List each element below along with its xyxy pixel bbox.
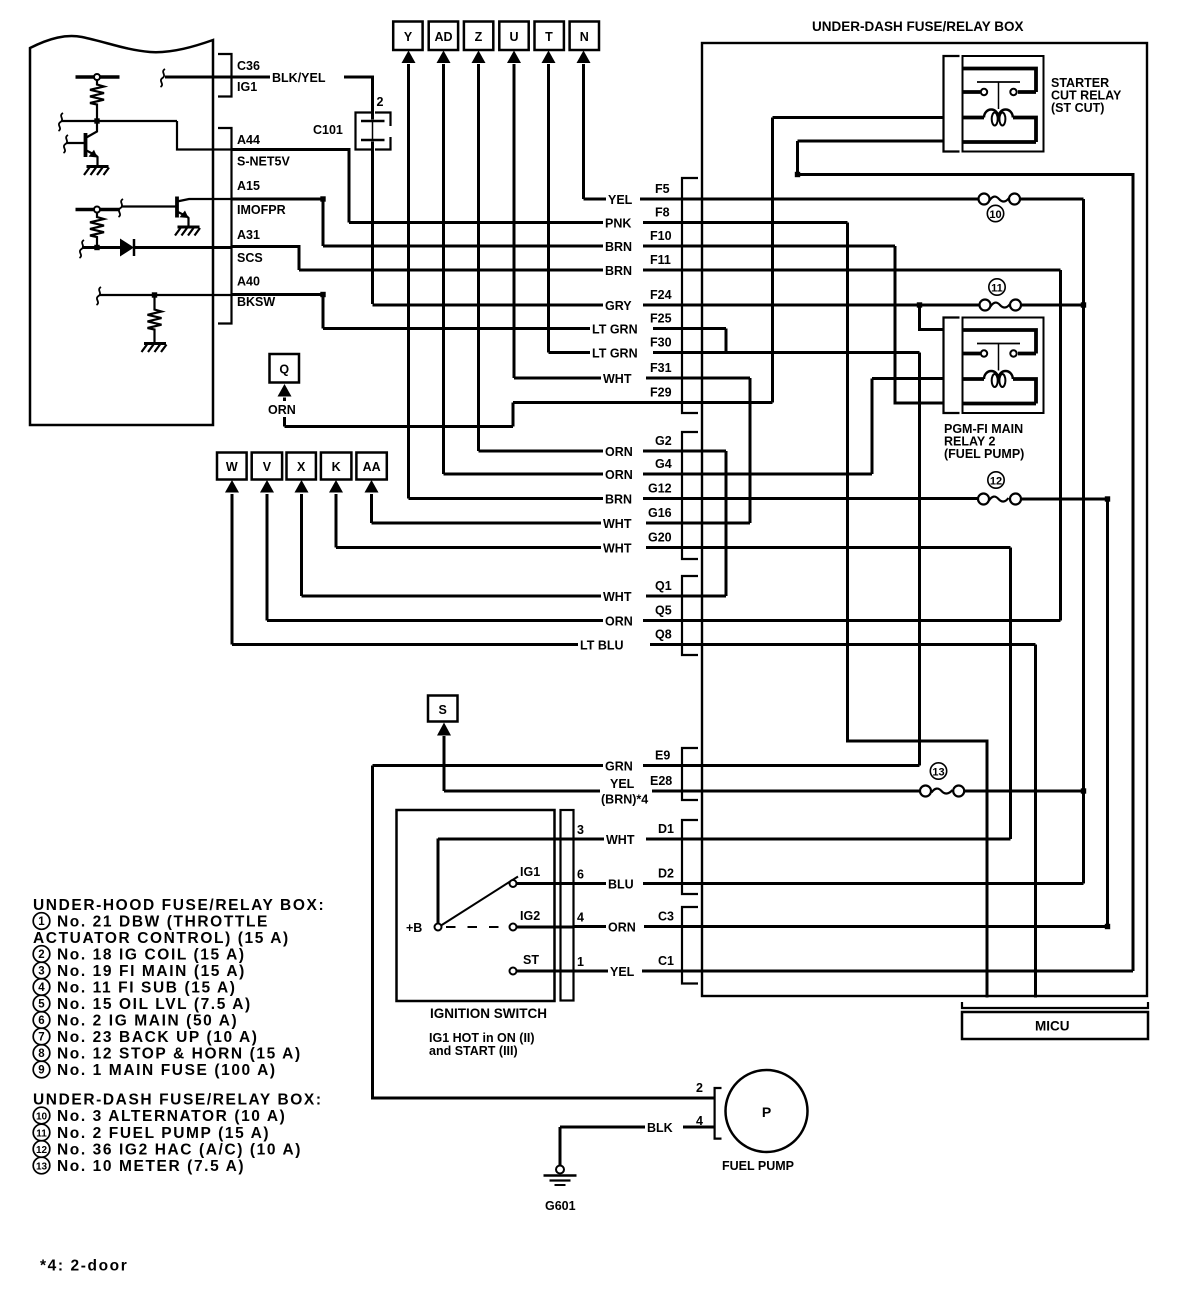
wire BLK row xyxy=(560,1126,716,1129)
svg-text:F30: F30 xyxy=(650,336,672,350)
svg-text:5: 5 xyxy=(38,999,45,1011)
relay ST CUT connector bracket xyxy=(944,56,960,152)
node dot F24/fuse11 branch xyxy=(917,302,922,307)
svg-text:C101: C101 xyxy=(313,123,343,137)
wire break squiggle xyxy=(59,113,64,131)
connector bracket D xyxy=(682,820,698,894)
svg-text:Q1: Q1 xyxy=(655,579,672,593)
connector bracket C xyxy=(682,907,698,984)
resistor R3 (BKSW pulldown) xyxy=(148,295,162,344)
svg-text:13: 13 xyxy=(36,1162,48,1173)
connector arrow AA xyxy=(356,453,386,493)
node junction dot SCS xyxy=(94,245,99,250)
svg-text:Q: Q xyxy=(279,363,289,377)
svg-text:C1: C1 xyxy=(658,954,674,968)
svg-text:T: T xyxy=(545,30,553,44)
wire ST-CUT bottom to C1 (via right side) xyxy=(798,141,1134,971)
svg-text:10: 10 xyxy=(36,1112,48,1123)
svg-text:3: 3 xyxy=(577,823,584,837)
svg-text:No. 2 FUEL PUMP (15 A): No. 2 FUEL PUMP (15 A) xyxy=(57,1125,270,1142)
wire C36/IG1 internal xyxy=(165,76,232,79)
svg-text:BLK/YEL: BLK/YEL xyxy=(272,71,326,85)
svg-text:BKSW: BKSW xyxy=(237,295,275,309)
legend circled numbers xyxy=(33,913,50,1174)
fuse 11 xyxy=(991,303,1011,308)
wire U column xyxy=(513,64,516,378)
ground (Q1 emitter) xyxy=(87,165,109,168)
wire fuse11 branch into relay 2 xyxy=(920,305,944,330)
svg-text:AD: AD xyxy=(434,30,452,44)
svg-text:C36: C36 xyxy=(237,59,260,73)
svg-text:BRN: BRN xyxy=(605,240,632,254)
wire G20 row WHT xyxy=(336,546,1011,549)
wire Q stem xyxy=(283,398,286,427)
connector bracket E xyxy=(682,748,698,800)
power rail 2 inside ECM xyxy=(76,208,120,211)
ignition internal +B wire xyxy=(438,839,574,925)
transistor Q1 (ECM) xyxy=(84,133,88,157)
svg-text:A40: A40 xyxy=(237,275,260,289)
svg-text:WHT: WHT xyxy=(603,372,632,386)
wire Q-ORN link row xyxy=(285,403,514,427)
connector arrow Q xyxy=(270,354,300,397)
rail 2 tap circle xyxy=(94,207,100,213)
wire fuse13 out elbow xyxy=(964,790,1083,793)
wire Q8 row LT BLU xyxy=(232,643,1036,646)
wire F25 row LT GRN (from A40) xyxy=(323,327,726,330)
node dot A15 corner xyxy=(320,196,325,201)
svg-text:7: 7 xyxy=(38,1032,44,1044)
wire F31 row WHT xyxy=(514,377,750,380)
svg-text:E9: E9 xyxy=(655,749,670,763)
svg-text:3: 3 xyxy=(38,966,44,978)
svg-text:LT GRN: LT GRN xyxy=(592,347,638,361)
svg-text:No. 15 OIL LVL (7.5 A): No. 15 OIL LVL (7.5 A) xyxy=(57,996,252,1013)
wire D2 row BLU xyxy=(573,882,1084,885)
wire Z column xyxy=(477,64,480,451)
svg-text:12: 12 xyxy=(36,1145,48,1156)
relay 2 outer box xyxy=(963,318,1044,414)
wire Q8 down to MICU xyxy=(1034,645,1037,998)
label ORN under Q xyxy=(265,401,303,417)
wire A44 row xyxy=(232,150,349,223)
wire S stem xyxy=(443,736,446,791)
svg-text:UNDER-DASH FUSE/RELAY BOX: UNDER-DASH FUSE/RELAY BOX xyxy=(812,19,1024,34)
svg-text:6: 6 xyxy=(38,1015,44,1027)
svg-text:WHT: WHT xyxy=(603,542,632,556)
svg-text:(BRN)*4: (BRN)*4 xyxy=(601,793,648,807)
wire internal junction row xyxy=(61,120,177,122)
svg-text:IG2: IG2 xyxy=(520,909,540,923)
ground (R3) xyxy=(144,342,166,345)
node junction dot BKSW xyxy=(152,292,157,297)
svg-text:UNDER-DASH FUSE/RELAY BOX:: UNDER-DASH FUSE/RELAY BOX: xyxy=(33,1092,323,1109)
svg-text:No. 23 BACK UP (10 A): No. 23 BACK UP (10 A) xyxy=(57,1029,259,1046)
connector bracket C36 on ECM xyxy=(218,54,232,97)
wire Y column xyxy=(407,64,410,499)
svg-text:11: 11 xyxy=(36,1129,47,1140)
svg-text:13: 13 xyxy=(932,767,944,779)
svg-text:Z: Z xyxy=(475,30,483,44)
wire F8 row PNK (from A44) xyxy=(349,221,848,224)
svg-text:G601: G601 xyxy=(545,1199,576,1213)
svg-text:F25: F25 xyxy=(650,312,672,326)
wire F24 row GRY (from C101) to fuse 11 xyxy=(373,304,980,307)
svg-text:1: 1 xyxy=(38,916,45,928)
node dot fuse12 corner xyxy=(1105,496,1110,501)
fuel pump motor circle xyxy=(726,1070,808,1152)
wire Q1 row WHT xyxy=(302,595,727,598)
wire ST-CUT coil entry xyxy=(773,116,944,119)
svg-text:ORN: ORN xyxy=(605,615,633,629)
svg-text:9: 9 xyxy=(38,1065,44,1077)
wire to A44 pin xyxy=(177,121,232,150)
svg-text:F24: F24 xyxy=(650,288,672,302)
wire K column xyxy=(335,494,338,548)
wire X column xyxy=(300,494,303,596)
svg-text:*4: 2-door: *4: 2-door xyxy=(40,1258,128,1275)
wire F5 row YEL xyxy=(584,198,979,201)
svg-text:A31: A31 xyxy=(237,228,260,242)
wire F29 row xyxy=(513,401,773,404)
svg-text:BLU: BLU xyxy=(608,878,634,892)
wire G2 row ORN xyxy=(479,450,727,453)
wire E28 row YEL to fuse 13 xyxy=(444,790,920,793)
node dot fuse11 out xyxy=(1081,302,1086,307)
connector C101 xyxy=(356,113,372,150)
connector arrow Y xyxy=(393,22,422,64)
svg-text:IG1 HOT in ON (II): IG1 HOT in ON (II) xyxy=(429,1031,535,1045)
svg-text:G12: G12 xyxy=(648,482,672,496)
svg-text:F5: F5 xyxy=(655,182,670,196)
connector arrow S xyxy=(428,696,458,736)
svg-text:Q5: Q5 xyxy=(655,604,672,618)
svg-text:No. 1 MAIN FUSE (100 A): No. 1 MAIN FUSE (100 A) xyxy=(57,1062,277,1079)
wire F8 down/right to MICU xyxy=(848,223,988,998)
resistor R2 xyxy=(90,213,104,248)
ignition rotor solid line +B to IG1 xyxy=(441,877,518,926)
svg-text:ST: ST xyxy=(523,953,539,967)
connector arrow W xyxy=(217,453,247,493)
wire G16 row WHT xyxy=(372,522,751,525)
svg-text:S-NET5V: S-NET5V xyxy=(237,155,290,169)
svg-text:SCS: SCS xyxy=(237,251,263,265)
connector arrow N xyxy=(570,22,599,64)
svg-text:G2: G2 xyxy=(655,434,672,448)
node junction dot R1/base rail xyxy=(94,118,99,123)
svg-text:U: U xyxy=(509,30,518,44)
ignition contact circles xyxy=(435,924,442,931)
svg-text:F11: F11 xyxy=(650,253,671,267)
resistor R1 (pull-up) xyxy=(90,80,104,121)
connector bracket A (A44-A40) on ECM xyxy=(218,128,232,324)
wire C3 row ORN xyxy=(573,925,1108,928)
svg-text:LT BLU: LT BLU xyxy=(580,639,624,653)
svg-text:No. 12 STOP & HORN (15 A): No. 12 STOP & HORN (15 A) xyxy=(57,1046,302,1063)
svg-text:BLK: BLK xyxy=(647,1121,673,1135)
svg-text:IMOFPR: IMOFPR xyxy=(237,203,286,217)
wire G12 row BRN to fuse 12 xyxy=(409,497,979,500)
wire ST-CUT bottom entry xyxy=(798,140,944,143)
wire F10 into relay 2 bottom xyxy=(895,246,944,403)
wire BKSW row internal xyxy=(99,294,232,296)
wire A40 row xyxy=(232,295,323,329)
svg-text:No. 21 DBW (THROTTLE: No. 21 DBW (THROTTLE xyxy=(57,914,269,931)
svg-text:MICU: MICU xyxy=(1035,1019,1070,1034)
wire F25-F30 jumper xyxy=(725,329,728,353)
connector bracket F xyxy=(682,178,698,413)
svg-text:IG1: IG1 xyxy=(520,865,540,879)
svg-text:ORN: ORN xyxy=(608,921,636,935)
wire T column xyxy=(547,64,550,353)
connector arrow K xyxy=(321,453,352,493)
wire N column xyxy=(582,64,585,199)
connector bracket ignition xyxy=(561,810,574,1001)
svg-text:WHT: WHT xyxy=(603,517,632,531)
connector arrow X xyxy=(287,453,316,493)
wire D1 row WHT xyxy=(573,838,1011,841)
relay ST CUT internals xyxy=(963,69,1036,143)
relay ST CUT outer box xyxy=(963,56,1044,152)
svg-text:BRN: BRN xyxy=(605,264,632,278)
svg-text:ORN: ORN xyxy=(605,468,633,482)
svg-text:1: 1 xyxy=(577,955,584,969)
ground (Q2 emitter) xyxy=(178,226,200,229)
ignition dashed line +B to IG2 xyxy=(446,926,504,928)
svg-text:D1: D1 xyxy=(658,822,674,836)
wire Q5 row ORN xyxy=(267,619,1061,622)
fuse 10 xyxy=(990,197,1010,202)
svg-text:No. 2 IG MAIN (50 A): No. 2 IG MAIN (50 A) xyxy=(57,1013,238,1030)
wire V column xyxy=(266,494,269,621)
wire G2-Q1 jumper xyxy=(725,451,728,596)
svg-text:A44: A44 xyxy=(237,133,260,147)
svg-text:Q8: Q8 xyxy=(655,628,672,642)
wire fuse10/11/13 to D2 xyxy=(1082,199,1085,884)
connector arrow U xyxy=(499,22,528,64)
svg-text:FUEL PUMP: FUEL PUMP xyxy=(722,1159,794,1173)
svg-text:ORN: ORN xyxy=(605,445,633,459)
wire W column xyxy=(231,494,234,645)
wire A31 row xyxy=(232,247,299,271)
wire F30 row LT GRN xyxy=(549,351,920,354)
svg-text:UNDER-HOOD FUSE/RELAY BOX:: UNDER-HOOD FUSE/RELAY BOX: xyxy=(33,897,325,914)
svg-text:BRN: BRN xyxy=(605,493,632,507)
svg-text:12: 12 xyxy=(990,476,1002,488)
fuse 12 xyxy=(989,497,1009,502)
power rail 1 inside ECM xyxy=(76,75,120,78)
svg-text:LT GRN: LT GRN xyxy=(592,323,638,337)
relay 2 connector bracket xyxy=(944,318,960,414)
wire E9 row GRN xyxy=(373,764,920,767)
svg-text:V: V xyxy=(263,460,272,474)
svg-text:F8: F8 xyxy=(655,206,670,220)
wire fuse12 down to C3 xyxy=(1106,499,1109,927)
wire SCS row internal xyxy=(82,246,120,249)
diode D1 (SCS) xyxy=(120,239,134,257)
svg-text:6: 6 xyxy=(577,868,584,882)
svg-text:4: 4 xyxy=(577,911,584,925)
node dot fuse13 out xyxy=(1081,788,1086,793)
wire fuse11 out elbow xyxy=(1021,304,1084,307)
svg-text:10: 10 xyxy=(989,209,1001,221)
svg-text:E28: E28 xyxy=(650,774,672,788)
svg-text:No. 36 IG2 HAC (A/C) (10 A): No. 36 IG2 HAC (A/C) (10 A) xyxy=(57,1142,302,1159)
svg-text:X: X xyxy=(297,460,306,474)
svg-text:YEL: YEL xyxy=(610,777,635,791)
svg-text:K: K xyxy=(332,460,341,474)
svg-text:and START (III): and START (III) xyxy=(429,1044,518,1058)
svg-text:No. 18 IG COIL (15 A): No. 18 IG COIL (15 A) xyxy=(57,947,246,964)
svg-text:WHT: WHT xyxy=(606,833,635,847)
svg-text:IGNITION SWITCH: IGNITION SWITCH xyxy=(430,1006,547,1021)
svg-text:4: 4 xyxy=(696,1114,703,1128)
wire G4 row ORN xyxy=(444,473,873,476)
connector arrow T xyxy=(535,22,564,64)
svg-text:11: 11 xyxy=(991,283,1003,295)
svg-text:G4: G4 xyxy=(655,457,672,471)
wire A15 row xyxy=(232,199,323,246)
svg-text:Y: Y xyxy=(404,30,413,44)
wire fuse12 out elbow xyxy=(1021,498,1108,501)
wire E9 left down to fuel pump xyxy=(373,766,716,1099)
svg-text:ORN: ORN xyxy=(268,403,296,417)
svg-text:F29: F29 xyxy=(650,386,672,400)
svg-text:F31: F31 xyxy=(650,361,672,375)
rail 1 tap circle xyxy=(94,74,100,80)
svg-text:8: 8 xyxy=(38,1048,45,1060)
svg-text:2: 2 xyxy=(696,1081,703,1095)
svg-text:G16: G16 xyxy=(648,506,672,520)
transistor Q2 (IMOFPR) xyxy=(175,197,179,218)
node dot corner xyxy=(795,172,800,177)
svg-text:P: P xyxy=(762,1104,771,1120)
node dot C3 corner xyxy=(1105,924,1110,929)
svg-text:No. 10 METER (7.5 A): No. 10 METER (7.5 A) xyxy=(57,1158,245,1175)
wire F30 down to E9 xyxy=(918,353,921,766)
ignition contact stubs xyxy=(517,884,575,972)
svg-text:N: N xyxy=(580,30,589,44)
wire C101 down to F24 row xyxy=(371,142,374,305)
svg-text:YEL: YEL xyxy=(608,193,633,207)
node dot A40 corner xyxy=(320,292,325,297)
connector arrow V xyxy=(252,453,282,493)
wire ST-CUT coil to F29 xyxy=(771,118,774,403)
svg-text:D2: D2 xyxy=(658,867,674,881)
wire G20 to D1 xyxy=(1009,548,1012,840)
fuse 13 xyxy=(932,789,953,794)
relay 2 internals xyxy=(963,330,1036,404)
svg-text:WHT: WHT xyxy=(603,590,632,604)
svg-text:4: 4 xyxy=(38,982,45,994)
svg-text:W: W xyxy=(226,460,238,474)
svg-text:PNK: PNK xyxy=(605,217,631,231)
svg-text:IG1: IG1 xyxy=(237,80,257,94)
svg-text:No. 11 FI SUB (15 A): No. 11 FI SUB (15 A) xyxy=(57,980,237,997)
svg-text:GRN: GRN xyxy=(605,760,633,774)
wire F10 row BRN (from A15) xyxy=(323,245,895,248)
wire AA column xyxy=(370,494,373,523)
svg-text:2: 2 xyxy=(38,949,44,961)
svg-text:(ST CUT): (ST CUT) xyxy=(1051,101,1104,115)
ECM/PCM box (wavy top) xyxy=(30,36,213,425)
svg-text:No. 19 FI MAIN (15 A): No. 19 FI MAIN (15 A) xyxy=(57,963,246,980)
svg-text:S: S xyxy=(439,703,447,717)
wire relay2 coil to G4 xyxy=(872,379,944,475)
svg-text:ACTUATOR CONTROL) (15 A): ACTUATOR CONTROL) (15 A) xyxy=(33,930,290,947)
svg-text:No. 3 ALTERNATOR (10 A): No. 3 ALTERNATOR (10 A) xyxy=(57,1108,286,1125)
wire F11 down to Q5 xyxy=(1059,270,1062,621)
wire AD column xyxy=(442,64,445,474)
wire F11 row BRN (from A31) xyxy=(299,269,1061,272)
wire F31-G16 jumper xyxy=(749,378,752,523)
svg-text:2: 2 xyxy=(377,95,384,109)
connector bracket fuel pump xyxy=(715,1088,722,1139)
svg-text:GRY: GRY xyxy=(605,299,632,313)
connector arrow AD xyxy=(429,22,458,64)
connector arrow Z xyxy=(464,22,493,64)
svg-text:AA: AA xyxy=(363,460,381,474)
svg-text:F10: F10 xyxy=(650,229,672,243)
svg-text:C3: C3 xyxy=(658,910,674,924)
wire C36 row to C101 xyxy=(232,77,373,120)
svg-text:+B: +B xyxy=(406,921,422,935)
connector bracket Q group xyxy=(682,576,698,655)
svg-text:A15: A15 xyxy=(237,179,260,193)
svg-text:(FUEL PUMP): (FUEL PUMP) xyxy=(944,447,1024,461)
connector bracket G xyxy=(682,432,698,559)
svg-text:YEL: YEL xyxy=(610,965,635,979)
wire C1 row YEL xyxy=(573,970,1134,973)
wire fuse10 out elbow xyxy=(1020,198,1084,201)
svg-text:G20: G20 xyxy=(648,531,672,545)
